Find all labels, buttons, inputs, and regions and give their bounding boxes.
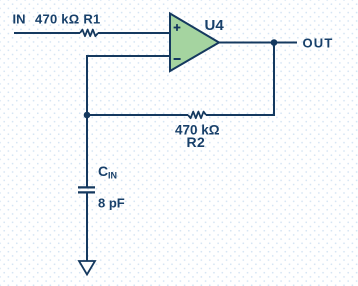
svg-text:C: C <box>98 163 108 179</box>
capacitor CIN reference label <box>98 163 117 181</box>
svg-text:IN: IN <box>13 12 26 27</box>
resistor R1 value label 470 kΩ R1 <box>35 12 100 27</box>
resistor R2 value label 470 kΩ <box>175 122 220 137</box>
svg-text:U4: U4 <box>205 17 225 34</box>
wire: op-amp output to OUT <box>219 42 297 44</box>
svg-text:R2: R2 <box>187 134 206 150</box>
node IN net label <box>13 12 26 27</box>
wire: capacitor to ground <box>86 192 88 261</box>
node: inverting input junction (dot) <box>84 112 91 119</box>
capacitor CIN (plates) <box>78 187 95 192</box>
ground symbol <box>79 261 95 275</box>
node OUT net label <box>303 35 334 50</box>
wire: output node down to feedback <box>273 43 275 116</box>
wire: resistor R1 to op-amp + input <box>98 32 170 34</box>
op-amp U4 reference designator label <box>205 17 225 34</box>
op-amp U4 (triangle body) <box>170 14 219 72</box>
resistor R2 (zigzag) <box>188 112 206 119</box>
wire: junction down to capacitor CIN <box>86 115 88 187</box>
svg-text:8 pF: 8 pF <box>98 196 125 211</box>
svg-text:470 kΩ R1: 470 kΩ R1 <box>35 12 100 27</box>
svg-text:IN: IN <box>108 171 117 181</box>
resistor R1 (zigzag) <box>80 30 98 37</box>
wire: IN to resistor R1 <box>14 32 80 34</box>
wire: junction up and right to op-amp - input <box>87 56 170 115</box>
resistor R2 reference designator label <box>187 134 206 150</box>
wire: feedback right segment to R2 <box>206 114 274 115</box>
op-amp U4 - input symbol <box>174 58 181 60</box>
op-amp U4 + input symbol <box>174 24 181 31</box>
capacitor CIN value label 8 pF <box>98 196 125 211</box>
wire: R2 to inverting junction <box>87 114 188 116</box>
node: output junction (dot) <box>271 39 278 46</box>
svg-text:OUT: OUT <box>303 35 334 50</box>
